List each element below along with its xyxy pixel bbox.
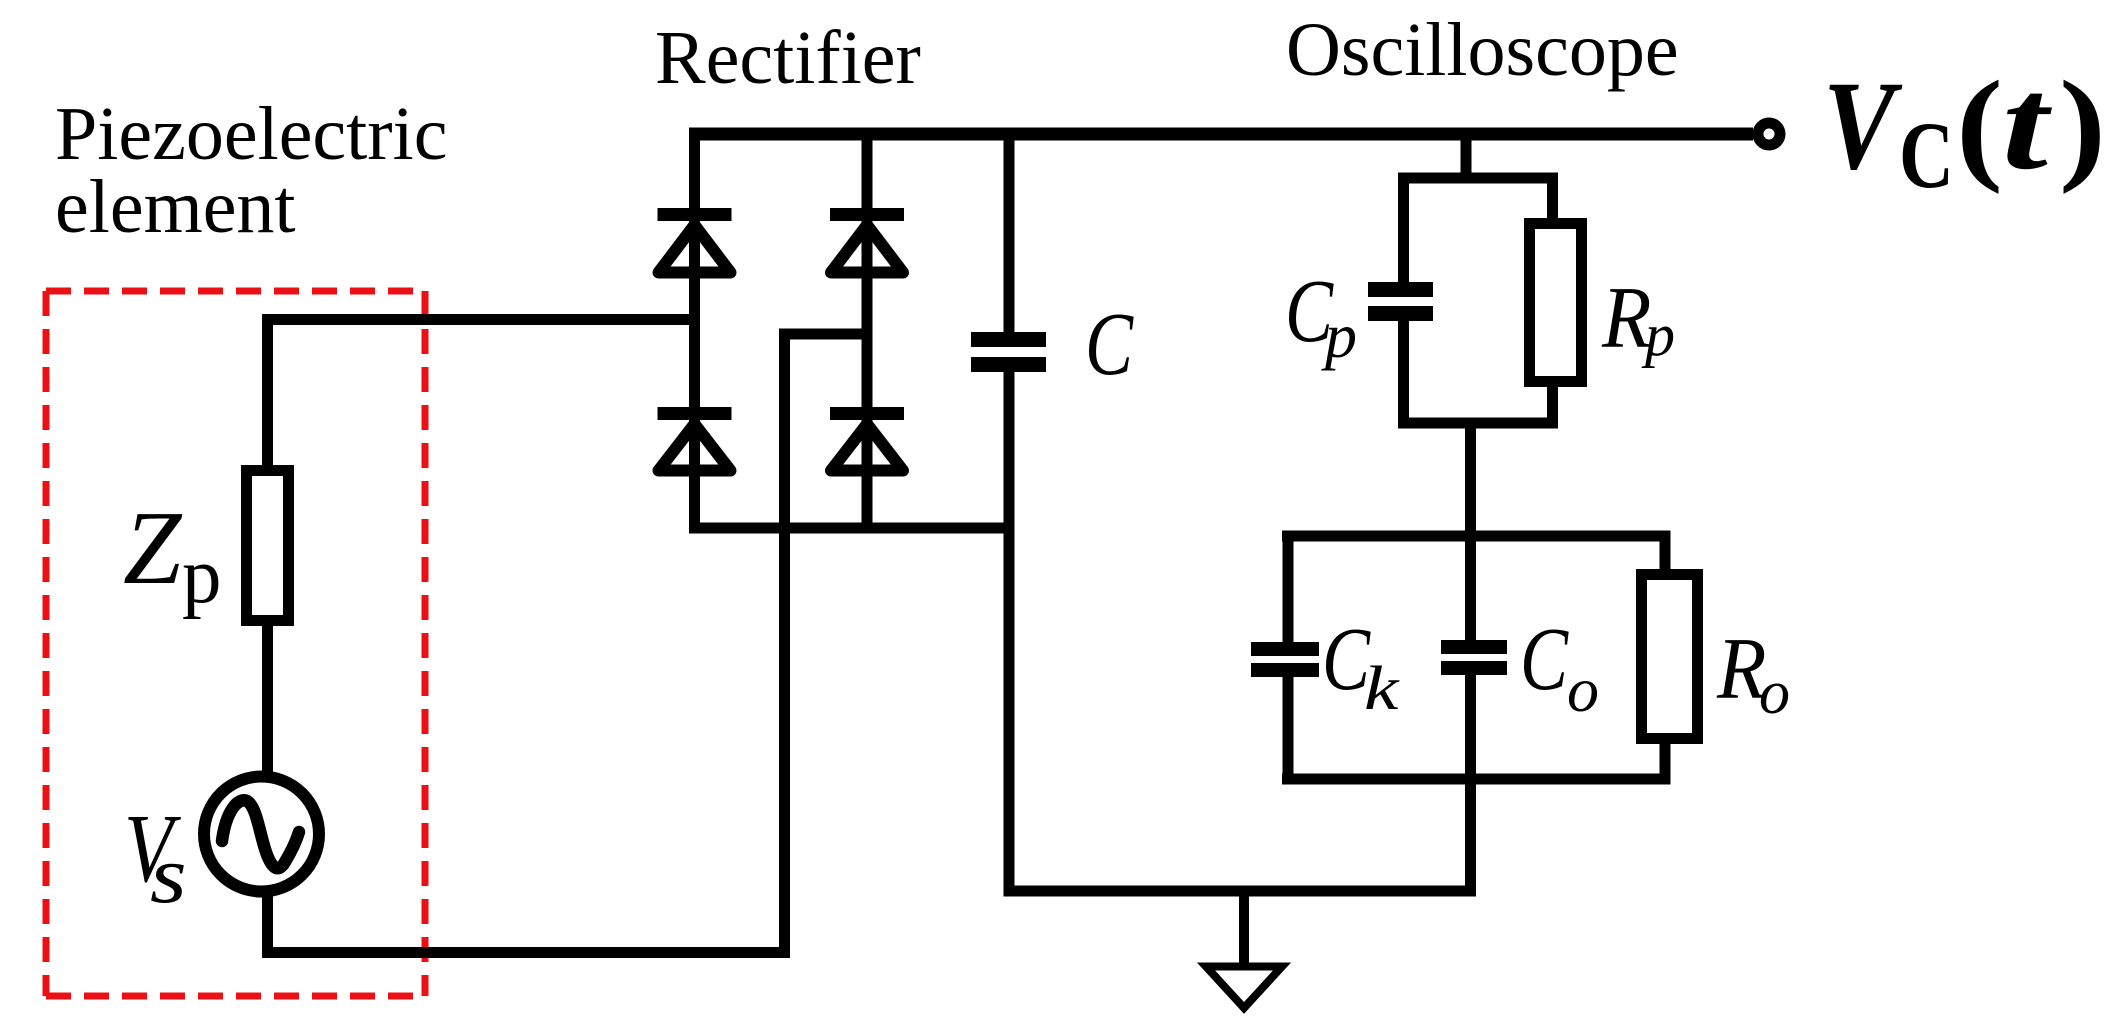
wire Cp branch upper xyxy=(1398,173,1409,286)
wire left bridge branch vertical xyxy=(689,128,700,534)
label Co xyxy=(1520,608,1599,725)
wire Ck branch lower xyxy=(1283,674,1294,785)
svg-text:C: C xyxy=(1899,102,1954,208)
piezoelectric element dashed boundary box xyxy=(46,291,425,996)
diode D4 bottom-right xyxy=(830,407,904,471)
svg-text:(: ( xyxy=(1956,55,2003,194)
ground symbol triangle xyxy=(1206,967,1282,1009)
capacitor Cp plates xyxy=(1368,282,1433,321)
svg-text:V: V xyxy=(1823,56,1903,196)
wire AC input 2 vertical xyxy=(779,329,790,958)
wire Ck branch upper xyxy=(1283,531,1294,646)
label Piezoelectric element xyxy=(55,92,447,249)
svg-text:): ) xyxy=(2059,55,2106,194)
wire Rp branch upper xyxy=(1547,173,1558,223)
wire piezo vertical top (to Zp) xyxy=(262,314,273,467)
wire AC input 1 from piezo top to bridge left branch xyxy=(262,314,700,325)
wire Cp-Rp top bar xyxy=(1398,173,1558,184)
wire top rail from rectifier to output terminal xyxy=(689,128,1753,141)
svg-text:R: R xyxy=(1601,270,1651,367)
svg-text:p: p xyxy=(1641,302,1675,368)
wire stub top rail to Cp-Rp block xyxy=(1461,134,1472,183)
capacitor C plates xyxy=(971,332,1046,372)
diode D2 top-right xyxy=(830,208,904,273)
wire smoothing-cap branch vertical upper xyxy=(1004,128,1015,336)
wire Ro branch lower xyxy=(1660,740,1671,785)
svg-text:Rectifier: Rectifier xyxy=(655,16,921,100)
diode D3 bottom-left xyxy=(658,407,732,471)
svg-text:Piezoelectric: Piezoelectric xyxy=(55,92,447,176)
resistor Zp box xyxy=(247,471,289,621)
svg-text:Z: Z xyxy=(123,489,183,606)
svg-text:p: p xyxy=(1321,300,1357,371)
wire Rp branch lower xyxy=(1547,383,1558,429)
wire bridge bottom rail xyxy=(689,523,1015,534)
svg-text:k: k xyxy=(1364,654,1400,723)
wire AC input 2 horizontal to second branch midpoint xyxy=(779,329,873,340)
label Oscilloscope xyxy=(1286,8,1679,92)
wire Cp branch lower xyxy=(1398,318,1409,429)
label Zp xyxy=(123,489,222,620)
label VC(t) xyxy=(1823,51,2106,208)
wire Ck-Co-Ro bottom bar xyxy=(1282,774,1669,785)
label Cp xyxy=(1285,260,1357,371)
resistor Ro box xyxy=(1642,575,1698,739)
svg-text:t: t xyxy=(2002,51,2053,197)
svg-text:C: C xyxy=(1520,608,1569,708)
wire oscilloscope bottom rail xyxy=(1004,886,1477,897)
label Rp xyxy=(1601,270,1675,368)
wire Ro branch upper xyxy=(1660,531,1671,575)
wire Cp-Rp bottom bar xyxy=(1398,418,1558,429)
wire smoothing-cap branch vertical lower xyxy=(1004,368,1015,897)
wire Zp to Vs xyxy=(262,624,273,779)
capacitor Co plates xyxy=(1441,640,1507,675)
svg-text:o: o xyxy=(1759,659,1790,727)
wire Co center branch upper xyxy=(1465,531,1476,644)
label Ck xyxy=(1322,608,1400,723)
ground stem xyxy=(1239,891,1249,963)
svg-text:C: C xyxy=(1085,293,1134,393)
label C xyxy=(1085,293,1134,393)
svg-text:element: element xyxy=(55,165,296,249)
wire piezo bottom rail xyxy=(262,947,790,958)
AC source Vs circle xyxy=(204,777,319,892)
svg-text:Oscilloscope: Oscilloscope xyxy=(1286,8,1679,92)
svg-text:s: s xyxy=(150,830,187,921)
svg-text:o: o xyxy=(1567,654,1599,725)
wire Vs bottom xyxy=(262,895,273,958)
label Rectifier xyxy=(655,16,921,100)
label Vs xyxy=(124,796,187,920)
wire center stub Cp-Rp to Ck-Co-Ro xyxy=(1465,418,1476,542)
wire Ck-Co-Ro top bar xyxy=(1282,531,1669,542)
capacitor Ck plates xyxy=(1251,642,1319,677)
svg-text:p: p xyxy=(182,533,222,620)
output terminal node xyxy=(1758,123,1780,145)
diode D1 top-left xyxy=(658,208,732,273)
label Ro xyxy=(1716,621,1790,727)
wire Co center branch lower to bottom rail xyxy=(1465,672,1476,897)
wire second bridge branch vertical xyxy=(862,128,873,534)
resistor Rp box xyxy=(1530,224,1582,382)
